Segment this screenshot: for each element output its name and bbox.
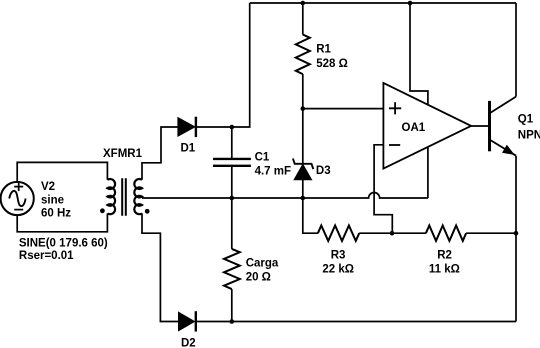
op-amp U1 OA1 [383,83,471,169]
svg-text:60 Hz: 60 Hz [41,208,71,220]
wire op-amp V+ power stub [410,3,428,105]
node rail D3 anode [301,196,306,201]
svg-text:OA1: OA1 [402,122,426,134]
wire secondary bottom to D2 anode [142,213,179,321]
svg-text:R3: R3 [331,249,346,261]
node rail C1 bottom [230,196,235,201]
transistor Q1 [490,97,517,156]
svg-text:C1: C1 [255,151,270,163]
node top rail R1 [301,1,306,6]
svg-text:NPN: NPN [518,129,540,141]
svg-text:D3: D3 [316,165,331,177]
diode D1 [178,117,196,137]
node R1 bottom / op-amp + input [301,106,306,111]
wire R2 to emitter line [466,232,516,234]
node top rail op-amp V+ [408,1,413,6]
transformer XFMR1 primary winding [107,179,115,214]
svg-text:D1: D1 [181,142,196,154]
wire bottom rail [196,321,516,323]
wire secondary top to D1 anode [142,127,178,180]
diode D2 [179,311,196,331]
zener diode D3 [293,109,313,198]
svg-text:V2: V2 [41,181,55,193]
node R2 emitter junction [514,231,519,236]
node at D1 cathode / C1 top [230,125,235,130]
svg-text:Q1: Q1 [518,114,534,126]
load resistor Carga [224,198,240,322]
wire R3 to node [359,232,392,234]
svg-text:R1: R1 [316,43,331,55]
transformer XFMR1 secondary winding [134,179,142,214]
transformer XFMR1 primary phase dot [100,208,105,213]
svg-text:XFMR1: XFMR1 [103,148,143,160]
transformer XFMR1 core [122,178,126,216]
resistor R1 [296,3,310,109]
svg-text:sine: sine [41,194,64,206]
svg-text:SINE(0 179.6 60): SINE(0 179.6 60) [19,237,108,249]
transformer XFMR1 secondary phase dot [145,209,150,214]
svg-text:11 kΩ: 11 kΩ [429,263,460,275]
svg-text:20 Ω: 20 Ω [246,272,271,284]
svg-text:D2: D2 [181,338,196,348]
svg-text:528 Ω: 528 Ω [316,58,348,70]
wire D1 cathode to top-left corner [196,3,250,127]
svg-text:4.7 mF: 4.7 mF [255,165,291,177]
wire inverting input feedback [374,145,392,233]
node Carga bottom [230,319,235,324]
resistor R3 [318,226,359,241]
voltage source V2 [1,182,34,215]
svg-text:Rser=0.01: Rser=0.01 [19,250,74,262]
wire Q1 emitter down right side [515,156,517,322]
svg-text:22 kΩ: 22 kΩ [322,263,354,275]
wire D3 node down to R3 [303,198,318,233]
node R3/R2 feedback junction [390,231,395,236]
wire Q1 collector to top rail [515,3,517,97]
wire primary bottom [17,213,107,231]
wire node to R2 [392,232,426,234]
wire op-amp output to Q1 base [471,125,488,127]
wire op-amp V- power stub [427,147,429,198]
wire primary top [17,162,107,182]
wire secondary center-tap rail with hop over feedback [142,193,428,199]
svg-text:R2: R2 [437,249,452,261]
capacitor C1 [213,127,251,198]
svg-text:Carga: Carga [246,258,279,270]
wire to op-amp noninverting input [303,108,384,110]
wire top rail [250,2,516,4]
V2 value label [41,181,71,219]
resistor R2 [426,226,466,241]
